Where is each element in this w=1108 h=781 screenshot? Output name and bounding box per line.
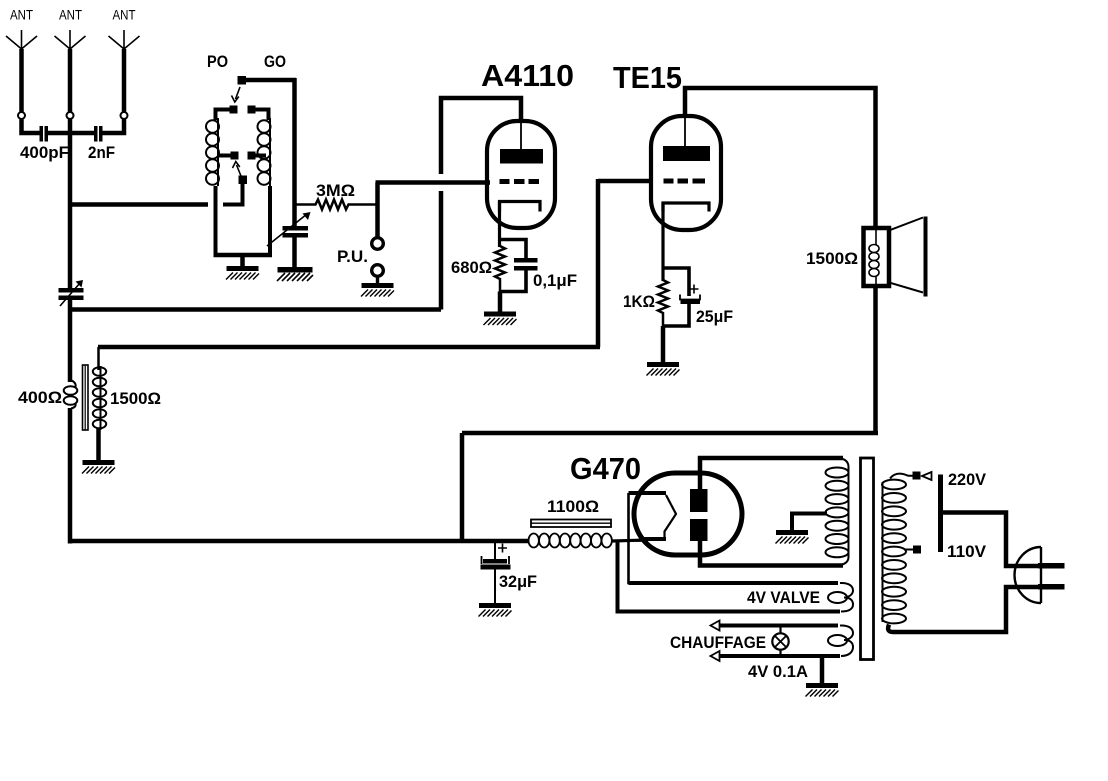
wire coil bottom bus <box>214 253 273 258</box>
wire antenna tap to switch (hops coil lead) <box>70 202 208 207</box>
svg-text:A4110: A4110 <box>481 58 574 93</box>
wire 400 coil down to bus <box>68 408 73 544</box>
tube TE15 anode plate <box>663 116 710 161</box>
antenna ANT2 <box>55 7 86 113</box>
svg-text:0,1μF: 0,1μF <box>533 271 577 290</box>
wire y309 to x441 <box>70 307 441 312</box>
wire C2 bottom to resistor bottom <box>500 271 527 292</box>
svg-text:TE15: TE15 <box>613 60 682 95</box>
resistor R1 3M <box>295 181 378 210</box>
transformer T1 core <box>83 365 89 430</box>
wire ANT1 drop to bus <box>22 120 40 134</box>
wire GO line down <box>292 78 297 226</box>
tube G470 envelope <box>634 473 742 555</box>
4V VALVE winding loop <box>629 583 854 612</box>
wire A4110 cathode lead <box>498 202 501 248</box>
switch contact 2L <box>219 152 239 160</box>
svg-text:25μF: 25μF <box>696 307 733 326</box>
antenna ANT3 <box>109 7 140 113</box>
ground (HT center tap) <box>776 530 809 544</box>
wire primary top lead <box>890 474 913 479</box>
capacitor C4 32uF electrolytic <box>481 541 538 591</box>
tube G470 anode 2 <box>690 519 708 541</box>
coil L1 (PO winding) <box>206 118 219 186</box>
tap square 110V <box>904 546 921 554</box>
transformer T2 HT winding <box>826 458 849 566</box>
ground (tuning cap) <box>277 267 313 281</box>
tube A4110 envelope <box>487 121 555 228</box>
svg-text:4V VALVE: 4V VALVE <box>747 588 820 607</box>
wire B+ bus y541 <box>70 539 528 544</box>
antenna terminal node 2 <box>67 112 74 119</box>
svg-text:1KΩ: 1KΩ <box>623 292 655 311</box>
choke L3 1100 ohm core <box>531 497 611 527</box>
wire contact 1L to left coil top <box>216 110 230 121</box>
tube A4110 grid (dashed) <box>500 179 540 184</box>
svg-text:ANT: ANT <box>113 7 136 23</box>
wire TE15 grid down <box>596 179 601 347</box>
wire filament top to 4V winding <box>629 493 839 583</box>
ground (chauffage) <box>806 656 839 697</box>
wire x441 down to y309 (break at grid crossing) <box>439 191 444 310</box>
resistor R3 1K <box>623 280 668 326</box>
wire speaker down to B+ line <box>873 286 878 433</box>
capacitor 2nF <box>88 126 115 162</box>
wire ANT2 drop <box>68 120 73 136</box>
tube A4110 cathode <box>500 202 541 212</box>
svg-text:1500Ω: 1500Ω <box>806 249 858 268</box>
variable capacitor (antenna series trimmer) <box>59 280 84 306</box>
wire B+ down x462 <box>460 433 465 541</box>
svg-text:110V: 110V <box>947 542 987 561</box>
transformer T1 primary 400 ohm <box>18 380 77 409</box>
wire bus between caps <box>48 131 94 136</box>
svg-text:PO: PO <box>207 52 228 71</box>
svg-text:2nF: 2nF <box>88 143 115 162</box>
tube G470 filament <box>629 493 677 539</box>
coil L2 (GO winding) <box>258 118 271 186</box>
wire antenna stem down <box>68 133 73 288</box>
switch wiper 1 (top) <box>232 76 247 102</box>
wire TE15 grid lead <box>598 179 652 184</box>
node junction grid A4110 <box>375 183 380 238</box>
svg-text:CHAUFFAGE: CHAUFFAGE <box>670 633 766 652</box>
svg-text:220V: 220V <box>948 470 987 489</box>
wire left coil bottom <box>214 186 218 255</box>
tube TE15 envelope <box>651 116 721 230</box>
svg-text:GO: GO <box>264 52 286 71</box>
switch wiper 2 (bottom) <box>223 162 247 205</box>
capacitor C2 0,1uF <box>514 258 577 290</box>
wire below trimmer / node to A4110 anode line <box>68 300 73 382</box>
transformer T1 secondary 1500 ohm <box>93 347 161 430</box>
wire tuning cap to ground <box>292 237 297 267</box>
wire B+ horizontal y433 <box>462 431 878 436</box>
ground (P.U.) <box>361 276 394 297</box>
wire wiper1 to GO line <box>246 78 296 83</box>
wire TE15 anode to speaker <box>685 88 876 228</box>
choke L3 windings <box>529 534 612 548</box>
switch contact 2R <box>248 152 267 160</box>
antenna ANT1 <box>6 7 37 113</box>
speaker transformer 1500 ohm <box>806 228 889 286</box>
ground (TE15 cathode) <box>647 326 680 376</box>
wire cathode to C3 <box>663 268 689 296</box>
wire choke to filament <box>612 540 648 541</box>
ground (coil) <box>226 255 259 280</box>
wire G470 anode bottom <box>700 541 843 566</box>
wire to interstage secondary <box>98 345 600 350</box>
ground (1500 secondary) <box>82 428 115 474</box>
resistor R2 680 <box>451 246 505 292</box>
wire contact 1R to right coil top <box>256 110 269 121</box>
ground (A4110 cathode) <box>484 292 517 326</box>
antenna terminal node 3 <box>121 112 128 119</box>
tap square 220V <box>913 472 921 480</box>
wire ANT3 drop to bus <box>103 120 125 134</box>
capacitor 400pF <box>20 126 69 162</box>
wire filament bottom branch down <box>618 541 841 612</box>
tube G470 anode 1 <box>690 489 708 512</box>
wire TE15 cathode lead <box>661 203 664 281</box>
wire right coil bottom <box>268 186 272 255</box>
svg-text:ANT: ANT <box>59 7 82 23</box>
svg-text:680Ω: 680Ω <box>451 258 492 277</box>
ground (32uF) <box>479 570 512 617</box>
antenna terminal node 1 <box>18 112 25 119</box>
wire selector to plug <box>941 513 1039 567</box>
capacitor C3 25uF electrolytic <box>680 285 733 327</box>
transformer T2 core <box>861 458 874 660</box>
tube TE15 grid (dashed) <box>664 179 706 184</box>
wire cathode to C2 <box>500 240 527 259</box>
tube TE15 cathode <box>663 203 709 212</box>
wire HT center tap <box>792 514 827 531</box>
svg-text:1500Ω: 1500Ω <box>110 389 161 408</box>
svg-text:3MΩ: 3MΩ <box>316 181 355 200</box>
mains plug <box>1015 547 1065 603</box>
CHAUFFAGE winding loop <box>670 621 853 662</box>
wire C3 bottom <box>663 304 689 326</box>
speaker horn <box>889 217 926 297</box>
svg-text:32μF: 32μF <box>499 572 537 591</box>
transformer T2 primary winding <box>882 480 906 624</box>
tube A4110 anode plate <box>500 121 543 164</box>
svg-text:P.U.: P.U. <box>337 247 368 266</box>
svg-text:1100Ω: 1100Ω <box>547 497 599 516</box>
wire grid line to A4110 <box>376 180 491 185</box>
terminal P.U. top <box>372 238 384 250</box>
lamp (dial light) <box>772 626 788 657</box>
svg-text:400Ω: 400Ω <box>18 388 62 407</box>
svg-text:G470: G470 <box>570 451 641 486</box>
variable capacitor (main tuning) <box>267 212 311 246</box>
switch contact 1L <box>230 106 238 114</box>
selector bar <box>938 475 943 553</box>
svg-text:4V 0.1A: 4V 0.1A <box>748 662 808 681</box>
switch contact 1R <box>248 106 256 114</box>
wire primary bottom to plug <box>888 587 1038 632</box>
wire G470 anode top <box>700 458 843 489</box>
selector arrow 220V <box>922 472 932 480</box>
svg-text:ANT: ANT <box>10 7 33 23</box>
svg-text:400pF: 400pF <box>20 143 69 162</box>
wire A4110 anode top loop <box>441 98 521 174</box>
terminal P.U. bottom <box>372 265 384 277</box>
